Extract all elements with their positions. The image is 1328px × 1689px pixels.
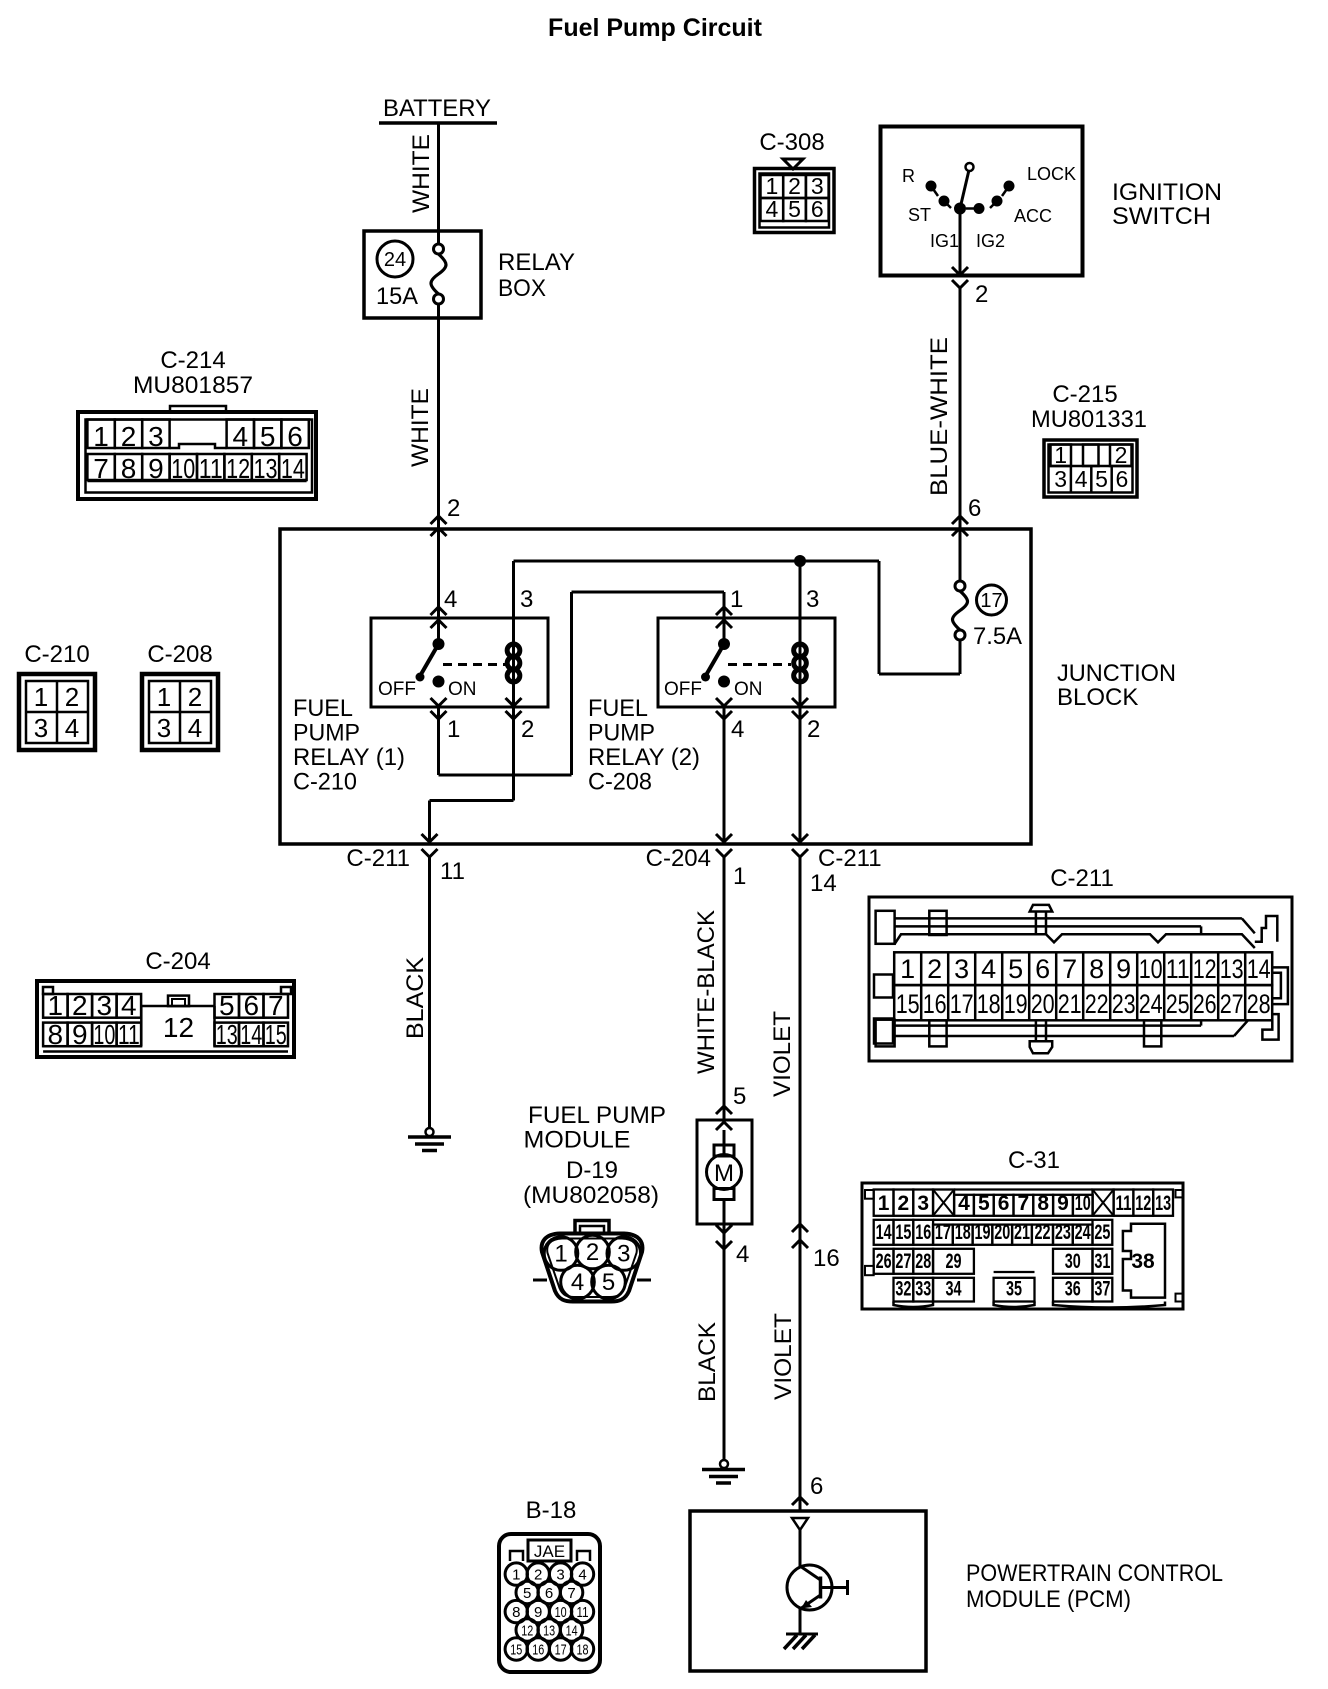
svg-text:6: 6	[968, 495, 981, 522]
svg-text:10: 10	[1139, 954, 1163, 984]
svg-text:7.5A: 7.5A	[973, 623, 1022, 650]
svg-text:13: 13	[254, 453, 278, 484]
svg-text:37: 37	[1094, 1278, 1110, 1301]
svg-text:1: 1	[900, 954, 915, 984]
wire coil feed (top horizontal)	[514, 561, 961, 674]
svg-text:23: 23	[1112, 989, 1136, 1019]
svg-text:11: 11	[577, 1604, 589, 1621]
fuel pump relay (1) box	[371, 618, 548, 707]
svg-text:C-204: C-204	[646, 845, 711, 872]
svg-text:(MU802058): (MU802058)	[523, 1182, 659, 1209]
svg-text:20: 20	[994, 1221, 1010, 1244]
fuel pump module label	[523, 1102, 666, 1209]
svg-text:3: 3	[148, 421, 164, 452]
relay 1 pin 2 arrows	[506, 698, 535, 743]
fuel pump relay (2) box	[658, 618, 835, 707]
svg-text:11: 11	[440, 858, 465, 885]
C-31 pin 16 arrows on violet wire	[792, 1224, 840, 1272]
fuse 17 7.5A	[953, 529, 1023, 674]
svg-text:1: 1	[447, 716, 460, 743]
svg-text:VIOLET: VIOLET	[770, 1313, 797, 1400]
svg-text:16: 16	[915, 1221, 931, 1244]
svg-text:RELAY (2): RELAY (2)	[588, 744, 700, 771]
svg-text:17: 17	[555, 1642, 567, 1659]
svg-text:13: 13	[1220, 954, 1244, 984]
relay box	[364, 231, 575, 318]
svg-text:24: 24	[384, 249, 406, 271]
relay 2 coil	[794, 618, 807, 707]
svg-text:Fuel Pump Circuit: Fuel Pump Circuit	[548, 14, 763, 42]
svg-text:1: 1	[1054, 442, 1067, 468]
svg-text:C-210: C-210	[24, 641, 89, 668]
svg-text:13: 13	[543, 1623, 555, 1640]
svg-text:C-211: C-211	[346, 845, 410, 872]
relay 2 switch OFF/ON	[664, 638, 791, 700]
svg-text:BLUE-WHITE: BLUE-WHITE	[926, 337, 953, 496]
svg-text:1: 1	[733, 863, 746, 890]
svg-text:C-211: C-211	[1050, 865, 1114, 892]
svg-text:7: 7	[1062, 954, 1077, 984]
svg-text:1: 1	[554, 1241, 567, 1268]
svg-text:12: 12	[226, 453, 250, 484]
svg-text:34: 34	[945, 1278, 961, 1301]
svg-text:C-211: C-211	[818, 845, 882, 872]
svg-text:2: 2	[65, 682, 79, 712]
svg-text:2: 2	[807, 716, 820, 743]
svg-text:3: 3	[954, 954, 969, 984]
connector C-204	[37, 948, 294, 1057]
connector label C-204 pin 1	[646, 845, 747, 890]
svg-text:5: 5	[1095, 466, 1108, 492]
svg-text:27: 27	[895, 1250, 911, 1273]
svg-text:3: 3	[617, 1241, 630, 1268]
svg-text:6: 6	[287, 421, 303, 452]
svg-text:6: 6	[243, 990, 259, 1021]
svg-text:10: 10	[1075, 1192, 1091, 1215]
svg-text:16: 16	[532, 1642, 544, 1659]
svg-text:4: 4	[1075, 466, 1088, 492]
wire relay 2 pin 2 to C-211 pin 14 exit	[792, 707, 808, 857]
wire battery to relay box	[437, 123, 440, 231]
svg-text:2: 2	[927, 954, 942, 984]
svg-text:1: 1	[878, 1192, 890, 1215]
svg-text:2: 2	[447, 495, 460, 522]
svg-text:C-31: C-31	[1008, 1147, 1060, 1174]
relay 2 pin 4 arrows	[716, 698, 744, 743]
relay 2 pin 3 label	[806, 586, 819, 613]
connector C-208	[142, 641, 218, 750]
svg-text:8: 8	[121, 453, 137, 484]
svg-text:C-308: C-308	[759, 129, 824, 156]
svg-text:28: 28	[915, 1250, 931, 1273]
relay 1 coil	[507, 618, 520, 707]
svg-text:ON: ON	[734, 679, 763, 700]
connector C-31	[862, 1147, 1183, 1309]
svg-text:6: 6	[1035, 954, 1050, 984]
svg-text:24: 24	[1139, 989, 1163, 1019]
relay 1 pin 1 arrows	[431, 698, 461, 743]
svg-text:35: 35	[1006, 1278, 1022, 1301]
svg-text:9: 9	[1116, 954, 1131, 984]
svg-text:9: 9	[534, 1604, 542, 1621]
svg-text:4: 4	[958, 1192, 970, 1215]
svg-text:C-208: C-208	[588, 769, 652, 796]
transistor in PCM	[787, 1530, 848, 1634]
title	[548, 14, 763, 42]
svg-text:MU801857: MU801857	[133, 372, 253, 399]
svg-text:WHITE: WHITE	[408, 134, 435, 213]
relay 1 pin 3 label	[520, 586, 533, 613]
wire BLACK from motor to ground	[694, 1224, 724, 1460]
svg-text:8: 8	[1089, 954, 1104, 984]
svg-text:4: 4	[981, 954, 996, 984]
svg-text:OFF: OFF	[378, 679, 416, 700]
PCM entry arrows pin 6	[792, 1473, 823, 1505]
svg-text:4: 4	[571, 1269, 584, 1296]
svg-text:2: 2	[586, 1239, 599, 1266]
svg-text:BOX: BOX	[498, 275, 546, 302]
svg-text:C-210: C-210	[293, 769, 357, 796]
svg-text:1: 1	[93, 421, 109, 452]
connector B-18	[499, 1497, 600, 1672]
svg-text:3: 3	[806, 586, 819, 613]
svg-text:11: 11	[1166, 954, 1190, 984]
connector C-308	[755, 129, 835, 233]
svg-text:19: 19	[1004, 989, 1028, 1019]
svg-text:1: 1	[157, 682, 171, 712]
svg-text:26: 26	[1193, 989, 1217, 1019]
svg-text:18: 18	[977, 989, 1001, 1019]
relay 1 pin 4 wire and arrows	[431, 529, 458, 644]
svg-text:28: 28	[1247, 989, 1271, 1019]
svg-text:3: 3	[97, 990, 113, 1021]
svg-text:18: 18	[577, 1642, 589, 1659]
svg-text:5: 5	[1008, 954, 1023, 984]
svg-text:7: 7	[268, 990, 284, 1021]
connector D-19 drawing	[533, 1221, 651, 1302]
svg-text:14: 14	[566, 1623, 578, 1640]
svg-text:26: 26	[876, 1250, 892, 1273]
svg-text:C-204: C-204	[145, 948, 210, 975]
svg-text:3: 3	[1054, 466, 1067, 492]
svg-text:C-215: C-215	[1052, 381, 1117, 408]
svg-text:7: 7	[567, 1585, 575, 1602]
svg-text:2: 2	[534, 1567, 542, 1584]
svg-text:13: 13	[1155, 1192, 1171, 1215]
svg-text:5: 5	[260, 421, 276, 452]
relay 2 pin 1 wire from relay 1	[439, 586, 744, 775]
svg-text:1: 1	[34, 682, 48, 712]
svg-text:12: 12	[1193, 954, 1217, 984]
svg-text:4: 4	[188, 713, 202, 743]
svg-text:33: 33	[915, 1278, 931, 1301]
svg-text:C-208: C-208	[147, 641, 212, 668]
wire relay box to junction block (WHITE)	[437, 318, 440, 529]
svg-text:22: 22	[1085, 989, 1109, 1019]
svg-text:4: 4	[65, 713, 79, 743]
svg-text:23: 23	[1055, 1221, 1071, 1244]
svg-text:5: 5	[733, 1083, 746, 1110]
svg-text:B-18: B-18	[526, 1497, 577, 1524]
svg-text:29: 29	[945, 1250, 961, 1273]
fuel pump motor box	[697, 1120, 752, 1224]
wire C-204 pin1 to fuel pump module (WHITE-BLACK)	[693, 857, 746, 1120]
svg-text:10: 10	[171, 453, 195, 484]
svg-text:15A: 15A	[376, 283, 418, 310]
svg-text:12: 12	[521, 1623, 533, 1640]
svg-text:2: 2	[975, 281, 988, 308]
svg-text:11: 11	[199, 453, 223, 484]
svg-text:22: 22	[1034, 1221, 1050, 1244]
connector label C-211 pin 11	[346, 845, 465, 885]
svg-text:8: 8	[1037, 1192, 1049, 1215]
svg-text:ST: ST	[908, 205, 931, 225]
wire ignition to junction block (BLUE-WHITE)	[959, 288, 962, 529]
svg-text:16: 16	[813, 1245, 840, 1272]
svg-text:MODULE (PCM): MODULE (PCM)	[966, 1586, 1131, 1613]
svg-text:RELAY: RELAY	[498, 249, 575, 276]
relay 2 pin 2 arrows	[792, 698, 820, 743]
svg-text:4: 4	[731, 716, 744, 743]
svg-text:FUEL: FUEL	[588, 695, 648, 722]
connector C-211	[869, 865, 1292, 1061]
svg-text:38: 38	[1131, 1250, 1155, 1273]
svg-text:14: 14	[810, 870, 837, 897]
svg-text:IGNITION: IGNITION	[1112, 179, 1222, 206]
svg-text:OFF: OFF	[664, 679, 702, 700]
svg-text:VIOLET: VIOLET	[769, 1011, 796, 1097]
junction node at relay 2 coil tap	[794, 555, 806, 567]
svg-text:MODULE: MODULE	[524, 1127, 631, 1154]
svg-text:6: 6	[998, 1192, 1010, 1215]
ignition switch rotary contacts	[902, 163, 1076, 251]
svg-text:BLACK: BLACK	[694, 1322, 721, 1402]
fuel pump motor exit arrows pin 4	[716, 1225, 749, 1268]
svg-text:6: 6	[811, 196, 824, 222]
svg-text:15: 15	[895, 1221, 911, 1244]
svg-text:9: 9	[1057, 1192, 1069, 1215]
fuel pump module motor entry arrows	[716, 1106, 732, 1130]
svg-text:2: 2	[121, 421, 137, 452]
svg-text:11: 11	[1116, 1192, 1132, 1215]
svg-text:5: 5	[788, 196, 801, 222]
svg-text:1: 1	[730, 586, 743, 613]
svg-text:4: 4	[765, 196, 778, 222]
wire relay 2 pin 4 to C-204 pin 1 exit	[716, 707, 732, 857]
svg-text:32: 32	[895, 1278, 911, 1301]
svg-text:9: 9	[148, 453, 164, 484]
svg-text:21: 21	[1014, 1221, 1030, 1244]
svg-text:PUMP: PUMP	[293, 720, 360, 747]
svg-text:7: 7	[93, 453, 109, 484]
svg-text:SWITCH: SWITCH	[1112, 203, 1211, 230]
svg-text:ON: ON	[448, 679, 477, 700]
svg-text:19: 19	[975, 1221, 991, 1244]
svg-text:PUMP: PUMP	[588, 720, 655, 747]
svg-text:8: 8	[512, 1604, 520, 1621]
ground (left)	[408, 1128, 451, 1151]
svg-text:24: 24	[1075, 1221, 1091, 1244]
ground (center)	[702, 1460, 745, 1483]
svg-text:C-214: C-214	[160, 347, 225, 374]
fuel pump relay (2) label	[588, 695, 700, 796]
svg-text:2: 2	[1115, 442, 1128, 468]
svg-text:15: 15	[896, 989, 920, 1019]
svg-text:6: 6	[545, 1585, 553, 1602]
svg-text:5: 5	[523, 1585, 531, 1602]
svg-text:JAE: JAE	[534, 1542, 565, 1561]
svg-text:3: 3	[917, 1192, 929, 1215]
svg-text:17: 17	[935, 1221, 951, 1244]
svg-text:25: 25	[1166, 989, 1190, 1019]
svg-text:BLOCK: BLOCK	[1057, 684, 1138, 711]
svg-text:MU801331: MU801331	[1031, 406, 1147, 433]
svg-text:4: 4	[121, 990, 137, 1021]
svg-text:2: 2	[188, 682, 202, 712]
svg-text:14: 14	[281, 453, 305, 484]
svg-text:WHITE: WHITE	[407, 388, 434, 467]
svg-text:2: 2	[72, 990, 88, 1021]
svg-text:4: 4	[233, 421, 249, 452]
junction entry arrows pin 2	[431, 516, 447, 536]
junction entry arrows pin 6	[952, 516, 968, 536]
svg-text:POWERTRAIN CONTROL: POWERTRAIN CONTROL	[966, 1560, 1223, 1587]
svg-text:3: 3	[556, 1567, 564, 1584]
svg-text:BATTERY: BATTERY	[383, 95, 491, 122]
svg-text:36: 36	[1065, 1278, 1081, 1301]
pin label 2 (junction entry)	[447, 495, 460, 522]
wire relay 2 coil drop	[799, 561, 802, 618]
svg-text:1: 1	[512, 1567, 520, 1584]
ignition switch box	[881, 127, 1223, 276]
svg-text:2: 2	[898, 1192, 910, 1215]
svg-text:D-19: D-19	[566, 1157, 618, 1184]
svg-text:15: 15	[510, 1642, 522, 1659]
fuse 24 15A in relay box	[376, 231, 446, 318]
svg-text:30: 30	[1065, 1250, 1081, 1273]
wire BLACK to ground	[402, 857, 430, 1128]
svg-text:3: 3	[157, 713, 171, 743]
pin label 6 (junction entry)	[968, 495, 981, 522]
svg-text:R: R	[902, 166, 915, 186]
svg-text:12: 12	[1135, 1192, 1151, 1215]
wire relay 1 pin 2 to C-211 pin 11 exit	[422, 707, 514, 857]
svg-text:20: 20	[1031, 989, 1055, 1019]
powertrain control module box	[690, 1511, 1223, 1671]
svg-text:4: 4	[578, 1567, 586, 1584]
svg-text:27: 27	[1220, 989, 1244, 1019]
wire label WHITE (upper)	[408, 134, 435, 213]
svg-text:10: 10	[555, 1604, 567, 1621]
fuel pump relay (1) label	[293, 695, 405, 796]
svg-text:BLACK: BLACK	[402, 957, 429, 1039]
wire label WHITE (lower)	[407, 388, 434, 467]
svg-text:14: 14	[876, 1221, 892, 1244]
svg-text:FUEL PUMP: FUEL PUMP	[528, 1102, 666, 1129]
svg-text:3: 3	[520, 586, 533, 613]
chassis ground in PCM	[784, 1634, 818, 1649]
svg-text:5: 5	[978, 1192, 990, 1215]
svg-text:17: 17	[950, 989, 974, 1019]
svg-text:6: 6	[810, 1473, 823, 1500]
svg-text:5: 5	[219, 990, 235, 1021]
svg-text:RELAY (1): RELAY (1)	[293, 744, 405, 771]
svg-text:3: 3	[34, 713, 48, 743]
connector C-215 MU801331	[1031, 381, 1147, 497]
wire label BLUE-WHITE	[926, 337, 953, 496]
wire VIOLET upper	[769, 857, 800, 1511]
wire ignition switch output pin 2	[952, 209, 988, 309]
PCM input triangle	[792, 1518, 808, 1530]
svg-text:31: 31	[1094, 1250, 1110, 1273]
svg-text:1: 1	[48, 990, 64, 1021]
svg-text:25: 25	[1094, 1221, 1110, 1244]
connector label C-211 pin 14	[810, 845, 882, 897]
connector C-210	[19, 641, 95, 750]
svg-text:FUEL: FUEL	[293, 695, 353, 722]
svg-text:IG1: IG1	[930, 231, 959, 251]
svg-text:JUNCTION: JUNCTION	[1057, 660, 1176, 687]
svg-text:6: 6	[1116, 466, 1129, 492]
svg-text:4: 4	[444, 586, 457, 613]
svg-text:IG2: IG2	[976, 231, 1005, 251]
svg-text:4: 4	[736, 1241, 749, 1268]
battery supply	[379, 95, 497, 123]
relay 1 switch OFF/ON	[378, 638, 506, 700]
svg-text:2: 2	[521, 716, 534, 743]
junction block	[280, 529, 1176, 844]
svg-text:14: 14	[1247, 954, 1271, 984]
svg-text:18: 18	[955, 1221, 971, 1244]
wire label VIOLET lower	[770, 1313, 797, 1400]
svg-text:7: 7	[1018, 1192, 1030, 1215]
svg-text:16: 16	[923, 989, 947, 1019]
svg-text:M: M	[714, 1160, 734, 1187]
svg-text:WHITE-BLACK: WHITE-BLACK	[693, 910, 720, 1074]
svg-text:5: 5	[602, 1269, 615, 1296]
svg-text:17: 17	[980, 590, 1002, 612]
svg-text:LOCK: LOCK	[1027, 164, 1076, 184]
svg-text:21: 21	[1058, 989, 1082, 1019]
connector C-214 MU801857	[78, 347, 316, 499]
svg-text:ACC: ACC	[1014, 206, 1052, 226]
svg-text:12: 12	[163, 1012, 194, 1043]
